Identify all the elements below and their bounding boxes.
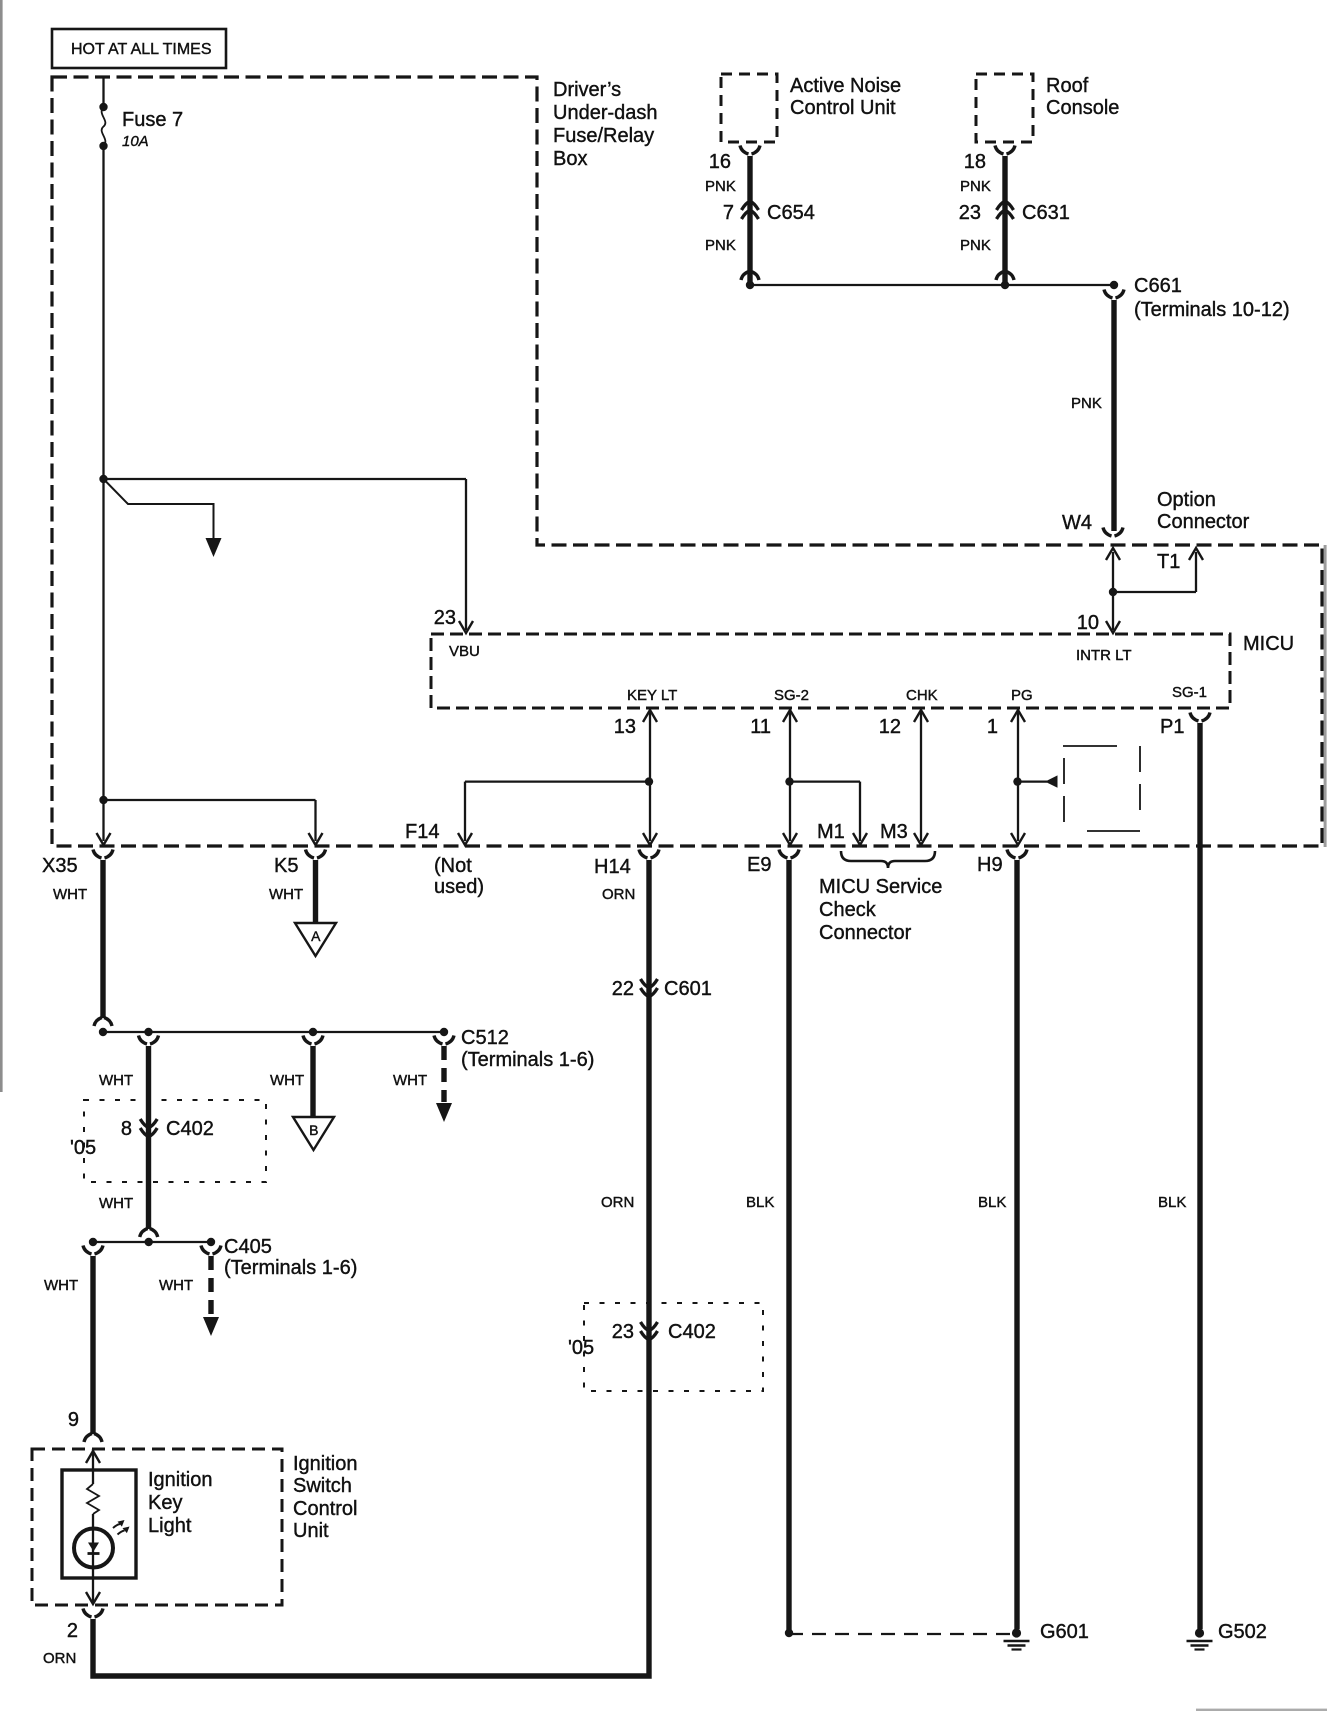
- svg-text:13: 13: [614, 716, 636, 738]
- svg-text:PG: PG: [1011, 687, 1033, 704]
- svg-text:16: 16: [709, 151, 731, 173]
- svg-text:Control: Control: [293, 1498, 357, 1520]
- svg-text:PNK: PNK: [1071, 395, 1102, 412]
- svg-text:SG-1: SG-1: [1172, 684, 1207, 701]
- svg-text:F14: F14: [405, 821, 439, 843]
- svg-text:Ignition: Ignition: [293, 1453, 358, 1475]
- svg-text:INTR LT: INTR LT: [1076, 647, 1132, 664]
- svg-text:Roof: Roof: [1046, 75, 1089, 97]
- svg-text:Option: Option: [1157, 489, 1216, 511]
- svg-text:KEY LT: KEY LT: [627, 687, 677, 704]
- svg-text:Connector: Connector: [819, 922, 912, 944]
- svg-text:C601: C601: [664, 978, 712, 1000]
- svg-text:9: 9: [68, 1409, 79, 1431]
- svg-text:'05: '05: [70, 1137, 96, 1159]
- svg-text:SG-2: SG-2: [774, 687, 809, 704]
- svg-text:WHT: WHT: [99, 1195, 133, 1212]
- svg-text:Control Unit: Control Unit: [790, 97, 896, 119]
- svg-text:H14: H14: [594, 856, 631, 878]
- svg-text:T1: T1: [1157, 551, 1180, 573]
- svg-text:(Terminals 1-6): (Terminals 1-6): [224, 1257, 357, 1279]
- svg-text:(Terminals 10-12): (Terminals 10-12): [1134, 299, 1290, 321]
- svg-text:WHT: WHT: [99, 1072, 133, 1089]
- svg-text:C402: C402: [668, 1321, 716, 1343]
- svg-text:10: 10: [1077, 612, 1099, 634]
- svg-text:H9: H9: [977, 854, 1003, 876]
- svg-text:1: 1: [987, 716, 998, 738]
- svg-text:WHT: WHT: [269, 886, 303, 903]
- svg-text:M3: M3: [880, 821, 908, 843]
- svg-text:Active Noise: Active Noise: [790, 75, 901, 97]
- svg-text:Key: Key: [148, 1492, 182, 1514]
- svg-text:Check: Check: [819, 899, 877, 921]
- svg-text:BLK: BLK: [746, 1194, 774, 1211]
- svg-text:BLK: BLK: [978, 1194, 1006, 1211]
- svg-text:Unit: Unit: [293, 1520, 329, 1542]
- svg-text:Under-dash: Under-dash: [553, 102, 658, 124]
- svg-text:VBU: VBU: [449, 643, 480, 660]
- svg-text:WHT: WHT: [53, 886, 87, 903]
- svg-text:WHT: WHT: [44, 1277, 78, 1294]
- svg-text:MICU Service: MICU Service: [819, 876, 942, 898]
- svg-text:Box: Box: [553, 148, 587, 170]
- svg-text:22: 22: [612, 978, 634, 1000]
- svg-text:ORN: ORN: [43, 1650, 76, 1667]
- svg-text:MICU: MICU: [1243, 633, 1294, 655]
- svg-text:C512: C512: [461, 1027, 509, 1049]
- svg-text:K5: K5: [274, 855, 298, 877]
- svg-text:C654: C654: [767, 202, 815, 224]
- svg-text:PNK: PNK: [960, 178, 991, 195]
- svg-text:11: 11: [750, 716, 771, 738]
- svg-text:PNK: PNK: [705, 237, 736, 254]
- svg-text:(Not: (Not: [434, 855, 472, 877]
- svg-text:WHT: WHT: [159, 1277, 193, 1294]
- svg-text:C631: C631: [1022, 202, 1070, 224]
- svg-text:Ignition: Ignition: [148, 1469, 213, 1491]
- svg-text:P1: P1: [1160, 716, 1184, 738]
- svg-text:C405: C405: [224, 1236, 272, 1258]
- svg-text:12: 12: [879, 716, 901, 738]
- svg-text:E9: E9: [747, 854, 771, 876]
- svg-text:10A: 10A: [122, 133, 149, 150]
- svg-text:W4: W4: [1062, 512, 1092, 534]
- svg-text:Fuse 7: Fuse 7: [122, 109, 183, 131]
- svg-text:G601: G601: [1040, 1621, 1089, 1643]
- svg-text:ORN: ORN: [601, 1194, 634, 1211]
- svg-text:Driver’s: Driver’s: [553, 79, 621, 101]
- svg-text:Light: Light: [148, 1515, 192, 1537]
- svg-text:G502: G502: [1218, 1621, 1267, 1643]
- svg-text:C402: C402: [166, 1118, 214, 1140]
- svg-text:8: 8: [121, 1118, 132, 1140]
- svg-text:23: 23: [434, 607, 456, 629]
- svg-text:'05: '05: [568, 1337, 594, 1359]
- svg-text:23: 23: [959, 202, 981, 224]
- svg-text:2: 2: [67, 1620, 78, 1642]
- svg-text:WHT: WHT: [270, 1072, 304, 1089]
- svg-text:PNK: PNK: [960, 237, 991, 254]
- svg-text:Console: Console: [1046, 97, 1119, 119]
- svg-text:BLK: BLK: [1158, 1194, 1186, 1211]
- svg-text:Connector: Connector: [1157, 511, 1250, 533]
- svg-text:CHK: CHK: [906, 687, 938, 704]
- svg-text:23: 23: [612, 1321, 634, 1343]
- svg-text:M1: M1: [817, 821, 845, 843]
- svg-text:used): used): [434, 876, 484, 898]
- svg-text:Switch: Switch: [293, 1475, 352, 1497]
- svg-text:ORN: ORN: [602, 886, 635, 903]
- svg-text:PNK: PNK: [705, 178, 736, 195]
- svg-text:HOT AT ALL TIMES: HOT AT ALL TIMES: [71, 41, 212, 58]
- svg-text:C661: C661: [1134, 275, 1182, 297]
- svg-text:X35: X35: [42, 855, 78, 877]
- svg-text:B: B: [309, 1122, 318, 1138]
- svg-text:Fuse/Relay: Fuse/Relay: [553, 125, 654, 147]
- svg-text:WHT: WHT: [393, 1072, 427, 1089]
- svg-text:18: 18: [964, 151, 986, 173]
- svg-text:7: 7: [723, 202, 734, 224]
- svg-text:(Terminals 1-6): (Terminals 1-6): [461, 1049, 594, 1071]
- svg-text:A: A: [311, 928, 321, 944]
